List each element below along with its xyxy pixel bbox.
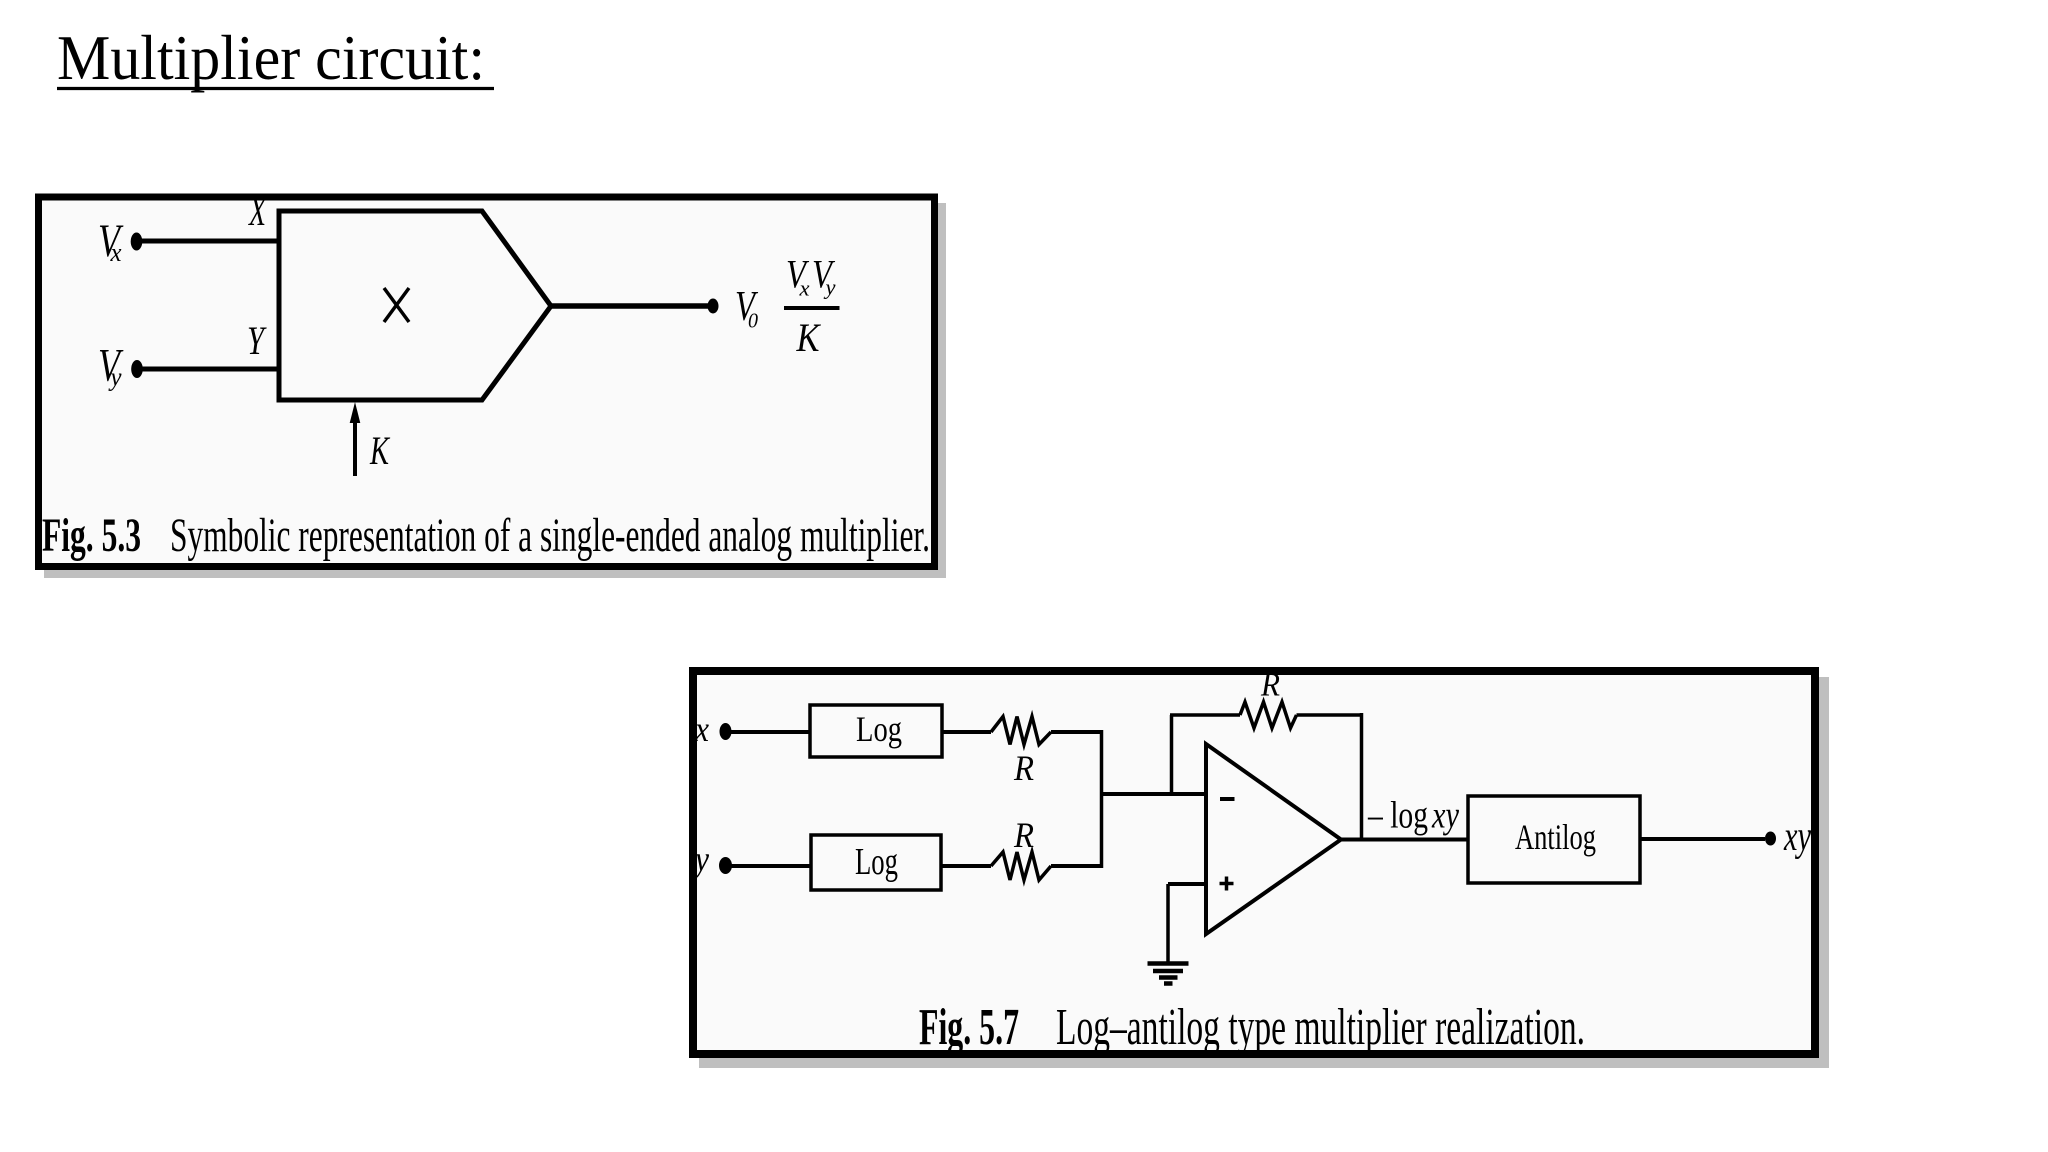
svg-text:Fig. 5.7: Fig. 5.7: [919, 999, 1019, 1056]
svg-text:x: x: [798, 276, 809, 301]
svg-text:Multiplier circuit:: Multiplier circuit:: [57, 22, 485, 93]
svg-text:Symbolic representation of a s: Symbolic representation of a single-ende…: [170, 509, 930, 562]
svg-text:y: y: [108, 363, 122, 392]
svg-text:– log: – log: [1367, 795, 1428, 837]
svg-text:xy: xy: [1431, 795, 1459, 837]
svg-text:0: 0: [748, 309, 758, 333]
svg-text:R: R: [1260, 667, 1280, 704]
svg-text:R: R: [1013, 815, 1034, 855]
svg-text:K: K: [369, 428, 390, 473]
svg-text:y: y: [692, 839, 709, 879]
svg-text:Y: Y: [247, 318, 267, 363]
svg-text:K: K: [796, 315, 822, 360]
svg-text:y: y: [823, 275, 835, 300]
svg-text:R: R: [1013, 748, 1034, 788]
svg-text:Fig. 5.3: Fig. 5.3: [42, 509, 141, 562]
svg-text:x: x: [694, 709, 709, 749]
svg-text:xy: xy: [1783, 814, 1811, 860]
svg-text:Log–antilog type multiplier re: Log–antilog type multiplier realization.: [1056, 999, 1585, 1056]
svg-text:X: X: [248, 189, 267, 234]
svg-text:Log: Log: [855, 841, 898, 883]
svg-text:Antilog: Antilog: [1515, 817, 1596, 857]
svg-text:Log: Log: [856, 709, 902, 749]
svg-text:x: x: [110, 238, 122, 267]
